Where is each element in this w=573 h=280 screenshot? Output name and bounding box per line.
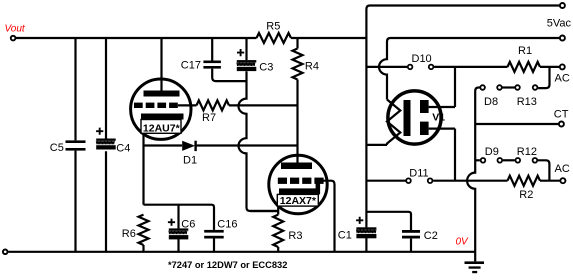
svg-text:V1: V1 xyxy=(432,111,445,123)
svg-text:D10: D10 xyxy=(412,53,432,65)
svg-text:C4: C4 xyxy=(116,143,130,155)
svg-text:AC: AC xyxy=(555,163,570,175)
svg-text:C2: C2 xyxy=(424,230,438,242)
svg-text:R7: R7 xyxy=(202,112,216,124)
svg-text:*7247 or 12DW7 or ECC832: *7247 or 12DW7 or ECC832 xyxy=(168,260,287,270)
svg-text:C5: C5 xyxy=(50,142,64,154)
svg-text:C6: C6 xyxy=(181,218,195,230)
svg-text:D11: D11 xyxy=(409,167,428,179)
svg-text:AC: AC xyxy=(555,73,570,85)
svg-text:C17: C17 xyxy=(181,60,201,72)
svg-text:CT: CT xyxy=(554,108,569,120)
svg-text:R4: R4 xyxy=(305,61,319,73)
svg-text:0V: 0V xyxy=(456,237,470,248)
svg-text:R5: R5 xyxy=(266,21,280,33)
svg-text:12AX7*: 12AX7* xyxy=(280,195,317,207)
svg-text:Vout: Vout xyxy=(5,24,26,35)
svg-text:D9: D9 xyxy=(485,146,499,158)
svg-text:R6: R6 xyxy=(122,228,136,240)
svg-text:R12: R12 xyxy=(517,146,537,158)
svg-text:D8: D8 xyxy=(484,96,498,108)
svg-text:R3: R3 xyxy=(288,230,302,242)
svg-text:C1: C1 xyxy=(338,230,352,242)
svg-text:C3: C3 xyxy=(259,61,273,73)
svg-text:5Vac: 5Vac xyxy=(547,18,572,30)
svg-text:R13: R13 xyxy=(517,96,537,108)
svg-text:R1: R1 xyxy=(518,45,532,57)
svg-text:D1: D1 xyxy=(183,154,197,166)
svg-text:12AU7*: 12AU7* xyxy=(143,122,181,134)
svg-text:R2: R2 xyxy=(519,189,533,201)
svg-text:C16: C16 xyxy=(217,218,237,230)
